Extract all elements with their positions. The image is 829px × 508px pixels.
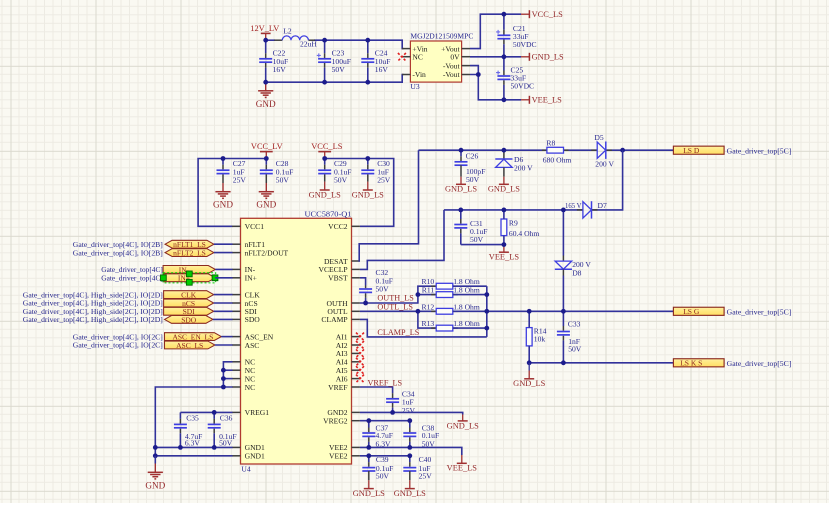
svg-text:16V: 16V	[375, 65, 389, 74]
pin +Vin	[402, 48, 410, 50]
svg-text:VCC1: VCC1	[245, 222, 265, 231]
wire port to pin row 303.0	[214, 302, 233, 304]
svg-text:C26: C26	[466, 151, 479, 160]
node C23 bottom	[322, 80, 327, 85]
power port GND_LS	[521, 53, 564, 62]
node -Vout junction	[476, 72, 481, 77]
svg-text:680 Ohm: 680 Ohm	[543, 156, 572, 165]
svg-text:GND_LS: GND_LS	[513, 379, 545, 388]
svg-text:50V: 50V	[276, 176, 290, 185]
pin SDI (left)	[232, 307, 257, 316]
pin ASC_EN (left)	[232, 332, 274, 341]
svg-text:CLAMP: CLAMP	[321, 315, 347, 324]
capacitor C39	[362, 456, 375, 471]
svg-text:GND_LS: GND_LS	[532, 53, 564, 62]
svg-text:VCC_LS: VCC_LS	[311, 142, 343, 151]
port nCS	[164, 299, 214, 308]
wire NC3 stub	[223, 378, 232, 380]
node NC4	[221, 385, 226, 390]
svg-text:50V: 50V	[334, 176, 348, 185]
resistor R11	[431, 292, 458, 298]
no-ERC marker AI1	[356, 333, 364, 341]
port LS G	[673, 307, 724, 316]
pin GND1 (left)	[232, 443, 265, 452]
wire VCECLP riser	[360, 210, 444, 270]
pin VEE2 (right)	[329, 443, 360, 452]
wire -Vout to VEE_LS	[470, 75, 521, 100]
svg-text:VREG1: VREG1	[245, 408, 270, 417]
svg-text:200 V: 200 V	[514, 163, 533, 172]
svg-text:OUTL_LS: OUTL_LS	[377, 303, 413, 312]
power port GND_LS under C39	[353, 480, 385, 498]
node C26 top	[459, 148, 464, 153]
power port GND_LS under C30	[352, 182, 384, 200]
node R11 right	[484, 292, 489, 297]
svg-text:GND_LS: GND_LS	[353, 489, 385, 498]
pin NC (left)	[232, 374, 255, 383]
node C32 bottom on OUTH	[363, 301, 368, 306]
svg-text:22uH: 22uH	[300, 40, 317, 49]
pin VREG1 (left)	[232, 408, 269, 417]
node D6 top	[502, 148, 507, 153]
svg-text:6.3V: 6.3V	[185, 439, 200, 448]
wire port to pin row 269.4	[215, 268, 232, 270]
node R14 top	[527, 309, 532, 314]
wire GND1 upper	[155, 446, 232, 448]
capacitor C28	[260, 159, 294, 185]
pin GND2 (right)	[327, 408, 360, 417]
svg-text:SDO: SDO	[181, 315, 197, 324]
capacitor C33	[557, 311, 570, 363]
pin DESAT (right)	[324, 257, 360, 266]
wire OUTL row / LS G line	[360, 310, 436, 312]
svg-text:CLAMP_LS: CLAMP_LS	[377, 328, 419, 337]
op-amp U4 UCC5870-Q1 body	[241, 210, 352, 474]
svg-text:LS G: LS G	[683, 307, 700, 316]
node R14 bottom	[527, 360, 532, 365]
svg-text:50V: 50V	[376, 285, 390, 294]
pin 0V	[462, 56, 470, 58]
svg-text:VCC_LV: VCC_LV	[251, 142, 283, 151]
wire R14 top	[528, 311, 530, 327]
wire GND2 row	[360, 412, 463, 414]
power port GND_LS under D6	[488, 177, 520, 194]
wire R11 left	[418, 294, 436, 296]
port SDI	[164, 307, 214, 316]
resistor R14	[526, 327, 546, 346]
wire 12V_LV top rail	[266, 39, 275, 41]
wire VBST to C32	[360, 278, 366, 286]
node R13 right	[484, 326, 489, 331]
pin ASC (left)	[232, 341, 259, 350]
wire port to pin row 319.4	[213, 318, 233, 320]
wire R8 to D5	[564, 149, 598, 151]
pin +Vout	[462, 48, 470, 50]
capacitor C23	[317, 40, 351, 82]
diode D8	[555, 210, 592, 311]
pin CLAMP (right)	[321, 315, 359, 324]
svg-text:LS D: LS D	[683, 146, 700, 155]
svg-text:Gate_driver_top[5C]: Gate_driver_top[5C]	[727, 147, 792, 156]
pin VCC2 (right)	[328, 222, 360, 231]
pin NC (left)	[232, 358, 255, 367]
no-ERC marker AI3	[356, 349, 364, 357]
wire C34 top pin	[392, 393, 394, 398]
wire C30 lower pin	[367, 174, 369, 181]
wire GND stem bottom left	[154, 456, 156, 464]
wire gate vertical	[486, 286, 488, 337]
pin AI6 (right)	[336, 374, 360, 383]
wire VIN top rail after L2	[314, 40, 404, 48]
wire C40 lower pin	[409, 471, 411, 480]
power port GND_LS under C26	[445, 177, 477, 194]
wire R13 branch	[418, 311, 436, 328]
diode D6	[495, 150, 533, 177]
capacitor C26	[455, 150, 468, 165]
svg-text:50VDC: 50VDC	[511, 82, 535, 91]
svg-text:MGJ2D121509MPC: MGJ2D121509MPC	[410, 32, 473, 41]
capacitor C27	[217, 159, 247, 185]
svg-text:VBST: VBST	[328, 274, 348, 283]
svg-text:GND: GND	[145, 480, 165, 490]
svg-text:Gate_driver_top[4C], IO[2B]: Gate_driver_top[4C], IO[2B]	[73, 248, 163, 257]
wire C28 lower pin	[265, 174, 267, 183]
power port VEE_LS	[521, 96, 562, 105]
node 12V junction C22	[263, 38, 268, 43]
capacitor C35	[174, 412, 187, 447]
svg-text:U4: U4	[241, 465, 250, 474]
capacitor C22	[259, 40, 288, 82]
power port GND_LS under C29	[309, 182, 341, 200]
svg-text:nFLT2/DOUT: nFLT2/DOUT	[245, 248, 289, 257]
svg-text:-Vin: -Vin	[412, 70, 426, 79]
node C37 top	[366, 418, 371, 423]
svg-text:Gate_driver_top[4C], IO[2C]: Gate_driver_top[4C], IO[2C]	[73, 341, 163, 350]
svg-text:50V: 50V	[568, 344, 582, 353]
port nFLT2_LS	[165, 249, 214, 258]
wire -Vout join	[470, 66, 478, 75]
svg-text:C33: C33	[568, 319, 581, 328]
power port VCC_LS (left)	[311, 142, 343, 158]
node C29 top	[322, 156, 327, 161]
wire C29 lower pin	[324, 174, 326, 181]
capacitor C40	[403, 456, 416, 471]
no-ERC marker AI4	[356, 358, 364, 366]
wire GND1 lower	[155, 455, 232, 457]
node GND1 left upper	[153, 445, 158, 450]
pin CLK (left)	[232, 290, 260, 299]
pin VEE2 (right)	[329, 452, 360, 461]
no-ERC marker AI5	[356, 366, 364, 374]
svg-text:D7: D7	[598, 201, 607, 210]
no-ERC marker AI6	[356, 375, 364, 383]
svg-text:R8: R8	[546, 138, 555, 147]
ground GND under C27	[213, 183, 233, 210]
capacitor C37	[362, 421, 375, 448]
pin nFLT2/DOUT (left)	[232, 248, 288, 257]
svg-text:C40: C40	[419, 455, 432, 464]
pin -Vin	[402, 74, 410, 76]
wire C32 top pin	[365, 286, 367, 289]
svg-text:VEE_LS: VEE_LS	[447, 464, 478, 473]
svg-text:NC: NC	[412, 52, 423, 61]
ground GND bottom left	[145, 464, 165, 491]
svg-text:GND1: GND1	[245, 452, 265, 461]
resistor R9	[501, 219, 539, 238]
svg-text:LS K S: LS K S	[680, 359, 702, 368]
svg-text:10k: 10k	[534, 335, 546, 344]
node C36 top	[212, 410, 217, 415]
wire VREG2 row	[360, 420, 410, 422]
svg-text:50V: 50V	[219, 439, 233, 448]
wire VEE2 upper row	[360, 447, 462, 455]
node C39 top	[366, 453, 371, 458]
svg-text:GND_LS: GND_LS	[488, 185, 520, 194]
node C37 bottom	[366, 445, 371, 450]
node C40 top	[407, 453, 412, 458]
pin NC (left)	[232, 383, 255, 392]
selection marks on IN+ port	[161, 271, 218, 285]
port IN+ (selected)	[163, 274, 215, 283]
svg-text:-Vout: -Vout	[443, 70, 461, 79]
node C25 bottom	[502, 97, 507, 102]
wire LS D line	[419, 149, 548, 151]
wire R9 bottom pin	[503, 236, 505, 245]
wire R14 bottom	[528, 346, 530, 363]
svg-text:50VDC: 50VDC	[513, 40, 537, 49]
node C24 bottom	[365, 80, 370, 85]
svg-text:UCC5870-Q1: UCC5870-Q1	[305, 210, 352, 219]
wire NC2 stub	[223, 369, 232, 371]
wire C31/R9 bottom rail	[461, 244, 504, 246]
wire DESAT riser	[359, 150, 418, 261]
node GND1 left lower	[153, 453, 158, 458]
svg-text:60.4 Ohm: 60.4 Ohm	[509, 229, 539, 238]
svg-text:GND_LS: GND_LS	[309, 190, 341, 199]
pin OUTH (right)	[327, 299, 360, 308]
pin VREF (right)	[328, 383, 360, 392]
port CLK	[164, 291, 214, 300]
svg-text:Gate_driver_top[4C], High_side: Gate_driver_top[4C], High_side[2C], IO[2…	[23, 315, 163, 324]
resistor R13	[431, 325, 458, 331]
svg-text:GND: GND	[256, 200, 276, 210]
wire R10 right	[453, 285, 487, 287]
no-ERC marker AI2	[356, 341, 364, 349]
svg-text:VREG2: VREG2	[323, 417, 348, 426]
svg-text:VEE_LS: VEE_LS	[532, 96, 563, 105]
node C31 top	[458, 208, 463, 213]
wire port to pin row 277.8	[215, 277, 232, 279]
node C34 bottom	[390, 410, 395, 415]
svg-text:GND_LS: GND_LS	[447, 421, 479, 430]
svg-text:C35: C35	[186, 413, 199, 422]
svg-text:R12: R12	[422, 302, 435, 311]
svg-text:Gate_driver_top[5C]: Gate_driver_top[5C]	[727, 359, 792, 368]
svg-text:1.8 Ohm: 1.8 Ohm	[453, 319, 480, 328]
wire port to pin row 345.0	[215, 344, 233, 346]
svg-text:ASC_LS: ASC_LS	[176, 341, 203, 350]
pin AI4 (right)	[336, 358, 360, 367]
inductor L2	[274, 27, 317, 49]
diode D7	[577, 201, 598, 218]
node gate/OUTL	[484, 309, 489, 314]
wire VCC_LV rail to VCC1	[198, 159, 266, 227]
capacitor C25	[496, 57, 534, 100]
node C36 bottom	[212, 445, 217, 450]
svg-text:25V: 25V	[402, 406, 416, 415]
node C35 bottom	[178, 445, 183, 450]
wire C27 lower pin	[222, 174, 224, 183]
svg-text:U3: U3	[410, 82, 419, 91]
wire CLAMP riser	[360, 319, 487, 337]
node D8 top	[561, 208, 566, 213]
svg-text:VEE_LS: VEE_LS	[489, 253, 520, 262]
node C30 top	[365, 156, 370, 161]
dc-dc module U3 MGJ2D121509MPC	[410, 32, 473, 92]
svg-text:50V: 50V	[470, 235, 484, 244]
capacitor C36	[208, 412, 221, 447]
pin nCS (left)	[232, 299, 258, 308]
svg-text:25V: 25V	[233, 176, 247, 185]
pin IN- (left)	[232, 265, 256, 274]
wire R13 right	[453, 327, 487, 329]
svg-text:C39: C39	[376, 455, 389, 464]
port IN-	[163, 265, 215, 274]
power port 12V_LV	[250, 24, 279, 40]
pin OUTL (right)	[327, 307, 360, 316]
wire port to pin row 294.6	[214, 294, 233, 296]
svg-text:GND_LS: GND_LS	[445, 185, 477, 194]
wire 0V to GND_LS	[470, 56, 521, 58]
pin SDO (left)	[232, 315, 260, 324]
wire R11 right	[453, 294, 487, 296]
port LS K S	[673, 359, 724, 368]
node C21 top	[502, 12, 507, 17]
wire VREG1 rail	[180, 411, 232, 413]
svg-text:VCC2: VCC2	[328, 222, 348, 231]
node OUTL/R13 branch	[416, 309, 421, 314]
node C21/C25 mid	[502, 54, 507, 59]
capacitor C30	[361, 159, 390, 185]
wire port to pin row 336.6	[221, 336, 232, 338]
svg-text:25V: 25V	[419, 471, 433, 480]
wire +Vout to VCC_LS	[470, 14, 521, 48]
resistor R8	[542, 147, 569, 153]
port SDO	[165, 315, 213, 324]
svg-text:ASC: ASC	[245, 341, 260, 350]
wire D7 line	[444, 209, 583, 211]
wire VCC_LS rail to VCC2	[325, 159, 394, 227]
port nFLT1_LS	[165, 240, 214, 249]
svg-text:NC: NC	[245, 383, 256, 392]
wire OUTH row	[360, 286, 436, 303]
wire port to pin row 252.6	[214, 252, 233, 254]
wire LS K S line	[529, 362, 673, 364]
node C27 top	[221, 156, 226, 161]
node C22 bottom	[263, 80, 268, 85]
svg-text:R9: R9	[509, 219, 518, 228]
svg-text:SDO: SDO	[245, 315, 261, 324]
node D5 cathode / D7 branch	[620, 148, 625, 153]
wire NC net to GND rail	[155, 387, 223, 456]
svg-text:D8: D8	[572, 268, 581, 277]
pin GND1 (left)	[232, 452, 265, 461]
pin NC (left)	[232, 366, 255, 375]
svg-text:L2: L2	[283, 27, 292, 36]
pin -Vout (1)	[462, 65, 470, 67]
capacitor C29	[318, 159, 351, 185]
svg-text:VCC_LS: VCC_LS	[532, 10, 564, 19]
svg-text:50V: 50V	[466, 175, 480, 184]
svg-text:GND_LS: GND_LS	[352, 190, 384, 199]
power port VEE_LS under R9	[489, 245, 520, 262]
svg-text:GND: GND	[256, 99, 276, 109]
svg-text:D5: D5	[594, 133, 603, 142]
diode D5	[591, 142, 612, 159]
node NC2	[221, 368, 226, 373]
wire D5 to LS D port	[606, 149, 673, 151]
resistor R10	[431, 283, 458, 289]
node C23 top	[322, 38, 327, 43]
power port GND_LS at GND2	[447, 415, 479, 431]
capacitor C38	[403, 421, 416, 448]
svg-text:OUTH_LS: OUTH_LS	[377, 294, 414, 303]
wire R9 top pin	[503, 210, 505, 219]
svg-text:1.8 Ohm: 1.8 Ohm	[453, 302, 480, 311]
wire D7 cathode up to LS D	[592, 150, 623, 210]
capacitor C31	[454, 210, 467, 245]
svg-text:R11: R11	[422, 286, 435, 295]
svg-text:0V: 0V	[450, 52, 460, 61]
pin VBST (right)	[328, 274, 360, 283]
wire NC pins tie	[223, 362, 232, 387]
svg-text:Gate_driver_top[5C]: Gate_driver_top[5C]	[727, 308, 792, 317]
svg-text:VEE2: VEE2	[329, 452, 348, 461]
svg-text:-Vout: -Vout	[443, 61, 461, 70]
node R9 top	[502, 208, 507, 213]
pin AI3 (right)	[336, 349, 360, 358]
wire GND bottom rail	[266, 75, 404, 83]
power port VEE_LS at VEE2	[447, 455, 478, 473]
svg-text:C36: C36	[220, 413, 233, 422]
power port VCC_LV	[251, 142, 283, 158]
wire C26 lower pin	[460, 165, 462, 177]
resistor R12	[431, 308, 458, 314]
node C38 bottom	[407, 445, 412, 450]
pin AI1 (right)	[336, 332, 360, 341]
port ASC_EN_LS	[165, 333, 222, 342]
port LS D	[673, 146, 724, 155]
pin VREG2 (right)	[323, 417, 360, 426]
no-ERC marker on module NC pin	[398, 53, 406, 61]
pin VCECLP (right)	[318, 265, 359, 274]
node R9 bottom VEE	[502, 242, 507, 247]
ground GND under C28	[256, 183, 276, 210]
wire port to pin row 244.2	[214, 243, 233, 245]
svg-text:12V_LV: 12V_LV	[250, 24, 279, 33]
node C24 top	[365, 38, 370, 43]
svg-text:Gate_driver_top[4C]: Gate_driver_top[4C]	[101, 274, 163, 283]
pin VCC1 (left)	[232, 222, 264, 231]
wire VEE2 lower row	[360, 455, 410, 457]
node C28/VCC_LV	[264, 156, 269, 161]
svg-text:25V: 25V	[377, 176, 391, 185]
svg-text:GND_LS: GND_LS	[394, 489, 426, 498]
pin NC (module)	[402, 56, 410, 58]
wire port to pin row 311.3	[214, 310, 233, 312]
svg-text:R13: R13	[422, 319, 435, 328]
capacitor C21	[496, 14, 536, 57]
